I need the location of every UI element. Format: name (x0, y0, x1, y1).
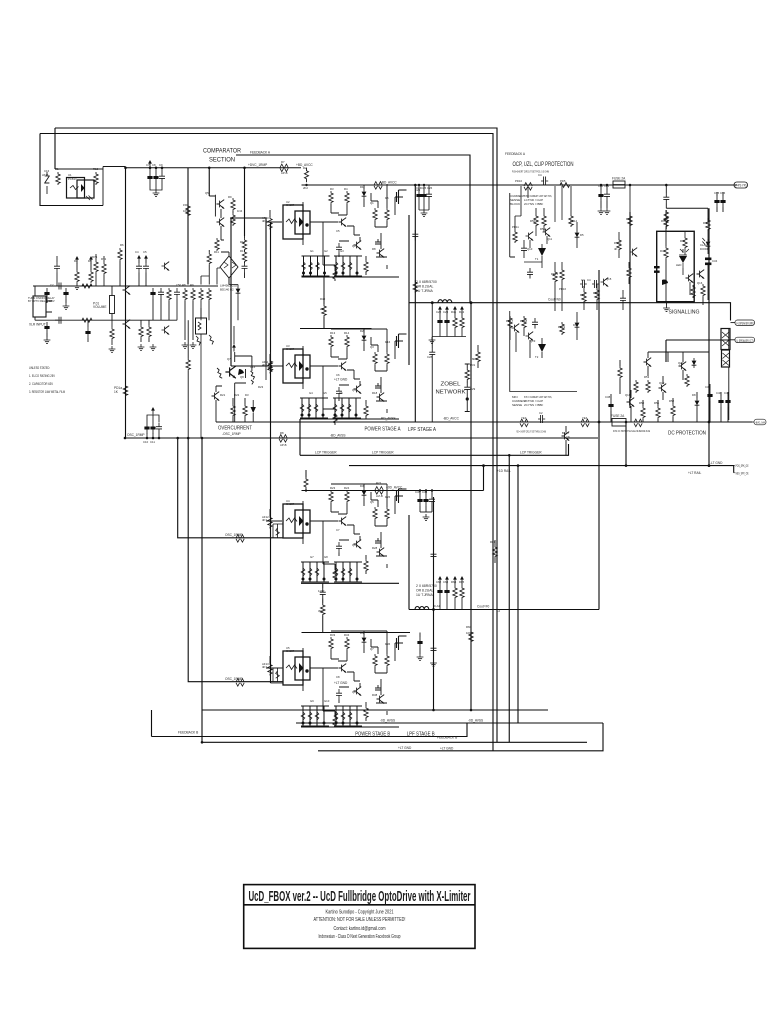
input elco C51 (85, 327, 90, 338)
svg-text:C7: C7 (336, 528, 340, 532)
svg-text:C5: C5 (336, 229, 340, 233)
interpolator resistor stage B (321, 603, 325, 616)
gnd row 3 (182, 342, 189, 348)
svg-text:C25: C25 (421, 186, 427, 190)
svg-text:P.05=SHORT CIRCUIT SET POS, 0.: P.05=SHORT CIRCUIT SET POS, 0.5 OHM (512, 170, 549, 174)
diode D5 (575, 230, 580, 240)
svg-text:R38: R38 (372, 693, 378, 697)
series resistor R2 (82, 284, 92, 288)
flag (+) speaker (731, 322, 736, 324)
signalling inner res R45 (683, 236, 687, 249)
svg-text:PD18: PD18 (520, 319, 527, 323)
dcp transistor Q19 (659, 384, 667, 393)
svg-text:R6: R6 (385, 196, 389, 200)
svg-text:2 X 68R/5700: 2 X 68R/5700 (416, 280, 437, 284)
wire drops (515, 186, 571, 230)
zobel res R32 (476, 350, 480, 363)
flag +PS (734, 182, 748, 188)
signalling res R40 (664, 210, 668, 223)
XLR connector J1 (33, 296, 46, 317)
svg-text:UNLESS STATED:: UNLESS STATED: (29, 366, 50, 370)
comparator res R18 (207, 252, 211, 265)
svg-text:C11: C11 (150, 440, 155, 444)
svg-text:Cout=N0: Cout=N0 (548, 298, 561, 302)
stage B rail gnd (423, 514, 430, 520)
svg-text:R64: R64 (451, 580, 457, 584)
svg-text:BLOCK: BLOCK (510, 202, 520, 206)
svg-text:R44: R44 (660, 249, 666, 253)
feedback res R61 (493, 545, 497, 558)
gate network A lower b (333, 398, 361, 418)
zener D2 (46, 172, 48, 194)
wire stage A gate bottom (302, 276, 400, 278)
opto driver cell B upper (U4) (266, 484, 407, 580)
svg-text:C62: C62 (436, 580, 442, 584)
svg-text:R13: R13 (330, 331, 336, 335)
svg-text:C6: C6 (336, 373, 340, 377)
gate network B upper b (334, 562, 362, 582)
comparator diode (236, 286, 241, 296)
svg-text:C2: C2 (539, 411, 543, 415)
svg-text:UcD_FBOX ver.2 -- UcD Fullbrid: UcD_FBOX ver.2 -- UcD Fullbridge OptoDri… (249, 889, 471, 905)
svg-text:10K: 10K (466, 631, 471, 635)
OCP bracket (510, 193, 515, 257)
flag -BVD (752, 421, 754, 423)
rail jumper B (+0D_AVCC) (375, 487, 383, 495)
opto A lower input resistor (266, 352, 283, 366)
signalling left parts (620, 294, 626, 305)
dcp caps pair C40 C41 (718, 396, 723, 407)
svg-text:R4: R4 (74, 259, 78, 263)
svg-text:LPF STAGE A: LPF STAGE A (408, 427, 436, 433)
svg-text:G7: G7 (310, 555, 314, 559)
svg-text:R4: R4 (344, 187, 348, 191)
svg-text:C9: C9 (159, 163, 163, 167)
svg-text:4K7: 4K7 (262, 665, 267, 669)
cap C33 (532, 318, 538, 329)
wire feedback B vertical 2 (517, 466, 519, 723)
LCP transistor Q14 (562, 432, 570, 441)
wire feedback A horizontal (236, 155, 470, 303)
comparator input links (201, 268, 220, 285)
signalling feed res R42 (629, 185, 631, 214)
svg-text:-BVD_NW: -BVD_NW (755, 420, 765, 424)
wire top feedback loop inner (40, 134, 493, 752)
opto U1 led (70, 186, 79, 190)
shunt res R9 (191, 288, 195, 301)
wire +LT RAIL line (349, 466, 734, 473)
wire stage B output vertical (408, 515, 410, 610)
svg-text:-BD_AVSS: -BD_AVSS (330, 434, 346, 438)
svg-text:BD140 B2: BD140 B2 (220, 288, 234, 292)
LPF A inductor L1 (438, 300, 452, 303)
wire +DVC_1RMP rail (126, 167, 302, 169)
svg-text:YE3: YE3 (521, 416, 527, 420)
input res R73 (110, 327, 114, 340)
svg-text:Cout=F0: Cout=F0 (477, 605, 490, 609)
comparator res R19 (242, 238, 246, 251)
svg-text:2K2: 2K2 (303, 186, 308, 190)
svg-text:R22: R22 (234, 393, 240, 397)
svg-text:R8: R8 (280, 431, 284, 435)
OCP bottom jumpers on rail (520, 419, 528, 427)
svg-text:Q5: Q5 (370, 500, 374, 504)
svg-text:XLR INPUT: XLR INPUT (29, 323, 46, 327)
svg-text:C8: C8 (566, 435, 570, 439)
dcp diode D8 (695, 398, 700, 408)
svg-text:LED: LED (676, 263, 681, 267)
svg-text:OR 8.2UAL: OR 8.2UAL (416, 589, 433, 593)
svg-text:C45: C45 (415, 490, 421, 494)
svg-text:C8: C8 (152, 163, 156, 167)
svg-text:SIGNALLING: SIGNALLING (669, 310, 700, 316)
relay drive res (685, 374, 689, 387)
svg-text:PA10: PA10 (614, 241, 621, 245)
svg-text:D3: D3 (360, 484, 364, 488)
svg-text:LCP TRIGGER: LCP TRIGGER (372, 451, 394, 455)
svg-text:DIODE: DIODE (700, 247, 709, 251)
svg-text:Q13: Q13 (530, 339, 536, 343)
relay drive diode (692, 358, 697, 368)
flag POS_SPK (734, 465, 735, 467)
OCP right res pair (617, 186, 625, 258)
svg-text:(+PS YR): (+PS YR) (736, 183, 747, 187)
filter cap C6 (158, 288, 164, 299)
opto B lower input resistors (273, 668, 283, 682)
wire LPF A left vertical (414, 186, 416, 422)
transistor Q13 (526, 332, 534, 341)
svg-text:R40: R40 (320, 297, 326, 301)
rail cap C30 (541, 177, 548, 186)
svg-text:PD16: PD16 (559, 287, 566, 291)
svg-text:1U T.JRNA: 1U T.JRNA (416, 289, 433, 293)
svg-text:LM-B: LM-B (376, 494, 383, 498)
signalling wires top (666, 204, 708, 223)
component value labels (texture) (42, 160, 730, 703)
svg-text:C5: C5 (143, 250, 147, 254)
svg-text:OVERCURRENT: OVERCURRENT (218, 426, 252, 432)
svg-text:NOTE: DC PROTECTIVE SHALL BE B: NOTE: DC PROTECTIVE SHALL BE BEFORE FUSE (613, 429, 650, 433)
svg-text:R11: R11 (214, 250, 219, 254)
gnd row 1 (138, 344, 145, 350)
wire DC sense vertical (625, 422, 627, 466)
wire box top (55, 167, 126, 206)
signalling gnd (663, 305, 670, 311)
svg-text:OR 8.2UAL: OR 8.2UAL (416, 285, 433, 289)
svg-text:VOLUME: VOLUME (93, 305, 106, 309)
svg-text:D8: D8 (692, 393, 696, 397)
resistor R12 (94, 172, 98, 185)
input row caps C50 (174, 288, 180, 299)
svg-text:C4: C4 (135, 250, 139, 254)
stage B lower rail caps (419, 633, 421, 638)
svg-text:R34: R34 (344, 633, 350, 637)
svg-text:G2: G2 (324, 249, 328, 253)
svg-text:-BD_AVSS: -BD_AVSS (380, 417, 396, 421)
svg-text:Q15: Q15 (606, 277, 612, 281)
signalling input res R43 (664, 215, 668, 228)
gate network A upper (302, 256, 330, 276)
svg-text:FEEDBACK A: FEEDBACK A (250, 151, 271, 155)
svg-text:6N137: 6N137 (286, 347, 295, 351)
svg-text:2CYNS = BBF: 2CYNS = BBF (524, 202, 543, 206)
rail jumper PD10 (524, 183, 532, 191)
signalling inner res R44 (664, 246, 668, 259)
signalling outer res R47 (701, 284, 705, 297)
dcp cap C39 (707, 390, 712, 401)
res PA10 (617, 238, 621, 251)
comparator transistor Q5 (217, 200, 225, 209)
svg-text:4K: 4K (614, 247, 618, 251)
svg-text:R23: R23 (258, 385, 264, 389)
svg-text:1U T.JRNA: 1U T.JRNA (416, 593, 433, 597)
svg-text:R34: R34 (593, 291, 599, 295)
res PD13 (542, 214, 546, 227)
LPF B lower cap C48 (431, 644, 437, 655)
wire stage A lower rail (300, 328, 372, 330)
svg-text:ATTENTION: NOT FOR SALE UNLESS: ATTENTION: NOT FOR SALE UNLESS PERMITTED… (314, 917, 406, 923)
svg-text:G5: G5 (323, 391, 327, 395)
wire opto A input (230, 218, 271, 683)
svg-text:AP-B: AP-B (281, 171, 288, 175)
svg-text:NEG_SPK_OE: NEG_SPK_OE (736, 471, 749, 475)
svg-text:R21: R21 (220, 393, 226, 397)
wire comparator out lower (231, 218, 266, 366)
svg-text:C39: C39 (705, 385, 711, 389)
svg-text:R22: R22 (376, 481, 382, 485)
signalling inner wires (683, 232, 690, 295)
svg-text:AP-B: AP-B (280, 443, 287, 447)
transistor Q12 (512, 324, 520, 333)
svg-text:ZOBEL: ZOBEL (441, 382, 462, 388)
wire +BD_AVCC rail (302, 184, 738, 186)
res PD15 (553, 270, 557, 283)
signalling input cap (665, 185, 667, 193)
jumper on OSC line (236, 535, 244, 543)
diode D6 (575, 320, 580, 330)
signalling polar cap C34 (705, 258, 711, 266)
svg-text:R45: R45 (680, 239, 686, 243)
svg-text:C28: C28 (427, 355, 433, 359)
svg-text:+LT RAIL: +LT RAIL (688, 471, 701, 475)
OC res pair right (251, 371, 255, 384)
svg-text:R14: R14 (344, 331, 350, 335)
series resistor R3 (82, 318, 92, 322)
svg-text:R61: R61 (490, 540, 496, 544)
svg-text:Q10: Q10 (527, 247, 533, 251)
svg-text:YE4: YE4 (582, 416, 588, 420)
resistor R1 (56, 172, 60, 185)
svg-text:R36: R36 (385, 642, 391, 646)
wire -BD_AVSS rail / DC protection rail (216, 421, 752, 423)
svg-text:Q18: Q18 (625, 393, 631, 397)
filter caps row mid (150, 288, 155, 299)
gate network B lower (301, 706, 329, 726)
svg-text:COMPARATOR: COMPARATOR (203, 148, 241, 155)
svg-text:R8: R8 (182, 283, 186, 287)
fuse F2 (612, 419, 626, 427)
wire LPF B output line (409, 609, 599, 611)
svg-text:R9: R9 (190, 283, 194, 287)
LPF B inductor L2 (415, 607, 429, 610)
dcp transistor Q20 (679, 362, 687, 371)
OC diag resistor (217, 368, 222, 378)
signalling cap C36 (720, 196, 725, 207)
elco C2 (44, 288, 49, 299)
lpfA decoupling bank (416, 184, 432, 217)
elco C3 (44, 322, 49, 333)
rail jumper A (+BD_AVCC) (280, 164, 288, 172)
wire stage B lower gate bottom (301, 726, 399, 728)
wire PD1a vertical (125, 168, 127, 438)
svg-text:R53: R53 (644, 375, 650, 379)
input mid cluster trans Q22 (162, 326, 170, 335)
res R33 (582, 290, 586, 303)
wire left bottom loop vertical (201, 438, 203, 742)
comparator bracket (209, 195, 215, 217)
svg-text:6N137: 6N137 (286, 502, 295, 506)
svg-text:PD19: PD19 (558, 325, 565, 329)
svg-text:POS_SPK_OE: POS_SPK_OE (736, 464, 749, 468)
svg-text:Q20: Q20 (678, 361, 684, 365)
opto B upper input resistors (273, 524, 283, 538)
pull resistor R5 (90, 263, 92, 270)
svg-text:(+) SPEAKER (NR): (+) SPEAKER (NR) (736, 322, 754, 326)
comparator cap C13 (242, 262, 248, 273)
dcp elco C38 (608, 400, 613, 411)
svg-text:R51: R51 (654, 401, 660, 405)
wire stage A lower gate bottom (300, 418, 399, 420)
gnd row 2 (150, 344, 157, 350)
dcp res R52 (671, 404, 675, 417)
input amp Q2 (123, 320, 131, 329)
wire bottom loop line 1 (202, 709, 548, 711)
pull resistor R4 (76, 263, 78, 270)
svg-text:G6: G6 (339, 391, 343, 395)
svg-text:R13: R13 (240, 249, 246, 253)
transistor Q10 (526, 232, 534, 241)
svg-text:C29: C29 (470, 387, 476, 391)
svg-text:Indonesian - Class D Next Gene: Indonesian - Class D Next Generation Fac… (319, 934, 401, 940)
wire stage B +rail feed (483, 466, 485, 491)
svg-text:FEEDBACK B: FEEDBACK B (178, 731, 198, 735)
comparator resistor R17 (231, 213, 235, 226)
svg-text:110P: 110P (318, 589, 324, 593)
interpolator cap stage B (320, 588, 326, 599)
svg-text:BY OPTO RELAY DRV: BY OPTO RELAY DRV (28, 299, 55, 303)
svg-text:G8: G8 (324, 555, 328, 559)
svg-text:1N4: 1N4 (237, 209, 243, 213)
input mid cluster trans Q21 (162, 262, 170, 271)
svg-text:+LT GND: +LT GND (334, 378, 348, 382)
svg-text:-OSC_1RMP: -OSC_1RMP (222, 432, 241, 436)
svg-text:20K: 20K (320, 307, 325, 311)
svg-text:R16: R16 (385, 340, 391, 344)
svg-text:4K7: 4K7 (262, 219, 267, 223)
svg-text:R5: R5 (88, 259, 92, 263)
svg-text:PD15: PD15 (551, 272, 558, 276)
svg-text:T1: T1 (535, 257, 539, 261)
lower row res R10 (139, 325, 143, 338)
svg-text:100N: 100N (420, 193, 427, 197)
wire signalling feed vertical (629, 212, 631, 408)
OC wires2 (216, 386, 222, 422)
svg-text:+0D_AVCC: +0D_AVCC (386, 486, 403, 490)
signalling res R41 (706, 218, 710, 231)
svg-text:D3: D3 (245, 393, 249, 397)
wire speaker return line (666, 340, 730, 362)
LPF A left vertical cap C27 (412, 230, 418, 241)
interpolator resistor stage A (323, 277, 325, 304)
svg-text:2. CAPACITOR 63V: 2. CAPACITOR 63V (29, 382, 54, 386)
svg-text:LCP TRIGGER: LCP TRIGGER (520, 451, 542, 455)
wire input box drop (54, 128, 56, 169)
wire stage B top rail (302, 490, 484, 492)
flag (-) speaker (731, 339, 736, 341)
svg-text:+LT GND: +LT GND (440, 747, 454, 751)
svg-text:R72: R72 (101, 257, 107, 261)
svg-text:C21: C21 (604, 184, 610, 188)
svg-text:R12: R12 (93, 167, 99, 171)
svg-text:Contact: kartino.id@gmail.com: Contact: kartino.id@gmail.com (334, 926, 386, 932)
res PD12 (534, 214, 538, 227)
SCR T1 (534, 248, 546, 256)
svg-text:C22: C22 (436, 310, 442, 314)
gate network A lower (300, 398, 328, 418)
svg-text:R60: R60 (626, 217, 632, 221)
res R34 (595, 288, 599, 301)
OC fuse resistors F1 R1 (196, 335, 213, 345)
resistor R6 (118, 248, 122, 261)
svg-text:D2: D2 (360, 329, 364, 333)
wire signal right vertical (708, 208, 710, 465)
rail resistor A (305, 168, 309, 183)
svg-text:(-) SPEAKER (CT): (-) SPEAKER (CT) (736, 339, 754, 343)
title block frame (244, 885, 475, 949)
svg-text:PD10: PD10 (515, 179, 522, 183)
cap C4 (136, 262, 142, 273)
input signal line - (35, 319, 177, 321)
caps C3 C4 (580, 280, 599, 288)
stage B rail caps C45 C46 (419, 491, 421, 496)
gnd row 4 (190, 342, 197, 348)
OC res R21 (231, 404, 235, 417)
svg-text:OSC_1RMP: OSC_1RMP (225, 677, 243, 681)
svg-text:R31: R31 (470, 363, 476, 367)
svg-text:SECTION: SECTION (209, 157, 235, 164)
speaker connector J2 (721, 329, 730, 350)
svg-text:R24: R24 (344, 486, 350, 490)
svg-text:Q11: Q11 (547, 237, 553, 241)
input series caps C1a C1b (55, 283, 62, 324)
svg-text:R7: R7 (281, 160, 285, 164)
svg-text:C41: C41 (724, 391, 730, 395)
svg-text:C34: C34 (712, 259, 718, 263)
svg-text:Q8: Q8 (352, 690, 356, 694)
signalling relay blob (662, 279, 668, 285)
LPF B mid cap C47 (431, 550, 437, 561)
dcp transistor Q18 (627, 398, 635, 407)
wire LPF B left vertical (433, 497, 435, 710)
svg-text:-0D_AVSS: -0D_AVSS (380, 719, 395, 723)
comparator wires (221, 209, 233, 284)
LPF A cap bank C22-C26 (429, 306, 466, 343)
svg-text:POWER STAGE A: POWER STAGE A (365, 427, 401, 433)
gnd input 1 (44, 337, 51, 343)
svg-text:R50: R50 (639, 401, 645, 405)
zobel cap C28 (431, 303, 433, 348)
svg-text:C7: C7 (146, 163, 150, 167)
